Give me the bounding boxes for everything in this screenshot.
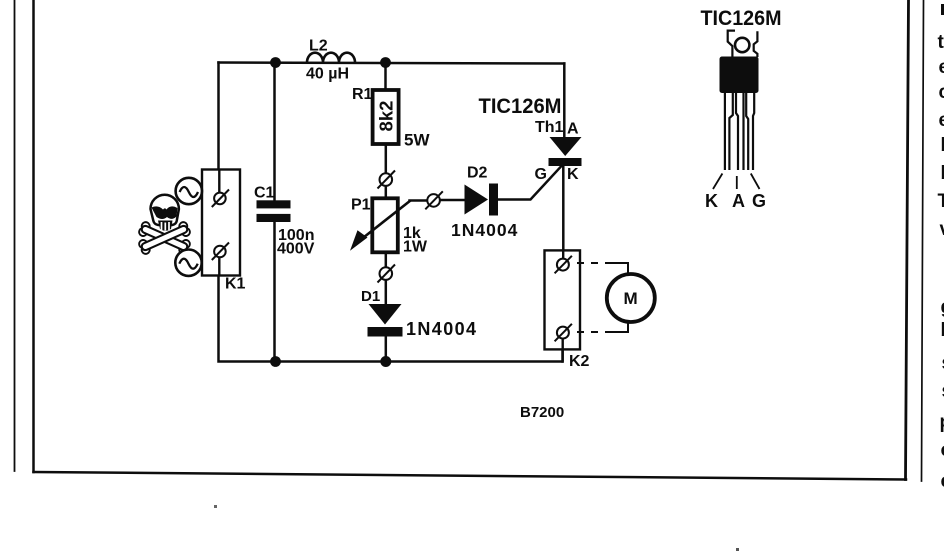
inductor L2 bbox=[307, 53, 355, 63]
wire K1 bottom to bottom rail bbox=[219, 276, 563, 362]
wire thyristor cathode to K2 bbox=[562, 166, 565, 259]
svg-text:400V: 400V bbox=[277, 241, 315, 258]
potentiometer P1 bbox=[372, 198, 398, 252]
package leg K bbox=[725, 93, 733, 170]
wire C1 branch upper bbox=[273, 63, 276, 201]
K1 terminal upper bbox=[212, 190, 229, 208]
connector K1 bbox=[202, 170, 240, 276]
svg-text:T: T bbox=[938, 191, 944, 212]
svg-text:e: e bbox=[939, 110, 944, 131]
AC source symbol upper bbox=[176, 178, 202, 204]
wire P1 wiper horizontal bbox=[410, 199, 428, 202]
wire R1 to link circle bbox=[385, 146, 388, 174]
K2 terminal upper bbox=[555, 256, 572, 273]
wire link circle to D1 bbox=[385, 280, 388, 305]
connector K2 bbox=[545, 250, 581, 349]
wire thyristor anode vertical bbox=[563, 64, 566, 138]
junction node bottom (C1/bottom rail) bbox=[270, 356, 281, 367]
svg-text:M: M bbox=[624, 289, 638, 308]
K1 terminal lower bbox=[212, 243, 229, 261]
wire P1 to lower link circle bbox=[385, 254, 388, 268]
crossbones bbox=[138, 221, 191, 255]
package leg G bbox=[746, 93, 754, 170]
column rule bbox=[922, 0, 924, 481]
svg-text:TIC126M: TIC126M bbox=[479, 94, 562, 118]
svg-text:40 µH: 40 µH bbox=[306, 66, 349, 83]
figure frame right bbox=[906, 0, 909, 480]
wire C1 branch lower bbox=[273, 222, 276, 362]
package leg A bbox=[736, 93, 744, 170]
svg-text:A: A bbox=[732, 191, 745, 211]
diode D1 bbox=[368, 304, 403, 337]
page edge line left bbox=[14, 0, 16, 471]
pointer line G bbox=[751, 174, 760, 190]
link point above P1 bbox=[378, 171, 396, 189]
svg-text:e: e bbox=[939, 57, 944, 78]
svg-text:P1: P1 bbox=[351, 197, 371, 214]
cut-off text column at right edge bbox=[938, 4, 944, 492]
stray dot below frame bbox=[214, 505, 217, 508]
svg-text:1W: 1W bbox=[403, 239, 428, 256]
wire D1 to bottom rail bbox=[385, 336, 388, 362]
thyristor Th1 bbox=[549, 137, 582, 166]
package body bbox=[720, 57, 759, 94]
svg-text:K1: K1 bbox=[225, 276, 246, 293]
svg-text:e: e bbox=[941, 471, 944, 492]
wire stub K2 bottom terminal bbox=[562, 338, 564, 361]
junction node top (C1/top rail) bbox=[270, 57, 281, 68]
svg-text:D1: D1 bbox=[361, 288, 380, 305]
P1 wiper arrow bbox=[350, 201, 411, 251]
pointer line K bbox=[713, 174, 722, 190]
AC source symbol lower bbox=[175, 250, 201, 276]
svg-text:K2: K2 bbox=[569, 353, 590, 370]
svg-text:G: G bbox=[752, 191, 766, 211]
svg-text:Th1: Th1 bbox=[535, 119, 564, 136]
wire link circle to D2 anode bbox=[440, 199, 465, 202]
wire stub K2 top terminal bbox=[562, 250, 564, 259]
figure frame bottom bbox=[34, 472, 907, 480]
svg-text:8k2: 8k2 bbox=[376, 101, 397, 132]
svg-text:5W: 5W bbox=[404, 131, 430, 150]
resistor R1 bbox=[373, 90, 399, 144]
wire stub K1 bottom terminal bbox=[218, 257, 220, 276]
svg-text:g: g bbox=[941, 297, 944, 318]
package tab outline bbox=[728, 31, 758, 57]
pointer line A bbox=[736, 176, 738, 189]
skull (danger symbol) bbox=[151, 195, 179, 231]
link point on wiper wire bbox=[425, 191, 443, 209]
wire R1 branch from top rail bbox=[384, 63, 387, 89]
wire D2 cathode to gate bend bbox=[498, 167, 561, 200]
svg-text:K: K bbox=[705, 191, 718, 211]
wire link circle to P1 bbox=[385, 186, 388, 197]
svg-text:1N4004: 1N4004 bbox=[451, 220, 518, 240]
svg-text:L2: L2 bbox=[309, 38, 328, 55]
svg-text:c: c bbox=[939, 82, 944, 103]
stray speck bottom bbox=[736, 548, 739, 551]
svg-text:v: v bbox=[940, 219, 944, 240]
figure frame left bbox=[32, 0, 35, 472]
dashed link upper to motor bbox=[577, 263, 628, 274]
svg-text:b: b bbox=[941, 163, 944, 184]
svg-text:K: K bbox=[567, 166, 579, 183]
svg-text:G: G bbox=[535, 166, 547, 183]
svg-text:1N4004: 1N4004 bbox=[406, 319, 477, 339]
capacitor C1 bbox=[257, 200, 291, 222]
wire stub K1 top terminal bbox=[218, 170, 220, 194]
svg-text:b: b bbox=[941, 320, 944, 341]
K2 terminal lower bbox=[555, 324, 572, 342]
wire K2 lower terminal to bottom rail bbox=[561, 338, 564, 361]
svg-text:b: b bbox=[941, 135, 944, 156]
value 8k2 (rotated) bbox=[376, 101, 397, 132]
svg-text:TIC126M: TIC126M bbox=[701, 6, 782, 30]
svg-text:t: t bbox=[938, 32, 944, 53]
junction node bottom (D1/bottom rail) bbox=[380, 356, 391, 367]
svg-text:A: A bbox=[567, 121, 579, 138]
dashed link lower to motor bbox=[577, 323, 628, 333]
svg-text:C1: C1 bbox=[254, 185, 275, 202]
svg-text:p: p bbox=[940, 412, 944, 433]
svg-text:B7200: B7200 bbox=[520, 404, 564, 421]
link point below P1 bbox=[378, 265, 396, 283]
svg-text:o: o bbox=[941, 440, 944, 461]
junction node top (R1/top rail) bbox=[380, 57, 391, 68]
wire left vertical to K1 bbox=[217, 63, 220, 171]
package tab hole bbox=[735, 38, 749, 52]
svg-text:D2: D2 bbox=[467, 165, 488, 182]
diode D2 bbox=[465, 184, 499, 216]
motor M bbox=[607, 274, 655, 322]
wire top horizontal bbox=[219, 63, 565, 64]
svg-text:R1: R1 bbox=[352, 86, 373, 103]
